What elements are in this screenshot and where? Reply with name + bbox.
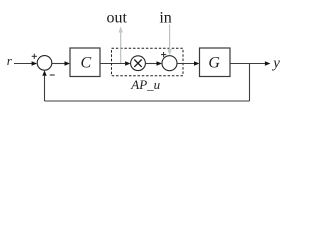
in arrow (gray, into adder) <box>167 25 171 56</box>
feedback branch junction and right vertical wire <box>249 64 251 102</box>
minus sign at feedback input <box>50 74 55 76</box>
feedback bottom wire <box>45 100 250 102</box>
in label <box>159 10 171 27</box>
wire multiplier to adder <box>145 61 162 65</box>
block G <box>200 48 231 77</box>
summing junction S1 <box>37 56 52 71</box>
plus sign at summing junction input <box>32 54 37 59</box>
svg-text:G: G <box>208 54 220 71</box>
wire C to multiplier <box>100 61 131 65</box>
svg-text:in: in <box>159 10 171 27</box>
svg-text:y: y <box>271 56 280 72</box>
wire G to output y <box>230 61 270 65</box>
svg-text:AP_u: AP_u <box>130 77 160 92</box>
svg-text:out: out <box>106 10 127 27</box>
svg-text:C: C <box>80 54 91 71</box>
svg-text:r: r <box>7 53 13 68</box>
label AP_u <box>130 77 160 92</box>
multiplier junction (circle with X) <box>131 56 146 71</box>
wire r to summing junction <box>14 61 37 65</box>
out label <box>106 10 127 27</box>
feedback wire up into summing junction <box>42 70 46 101</box>
block C <box>70 48 100 77</box>
wire adder to G <box>177 61 200 65</box>
dashed box AP_u <box>112 48 184 75</box>
plus sign at adder input <box>161 52 166 57</box>
adder junction <box>162 56 177 71</box>
node y label <box>271 56 280 72</box>
wire summing junction to C <box>52 61 70 65</box>
out arrow (gray, tap before multiplier) <box>119 26 123 63</box>
node r label <box>7 53 13 68</box>
